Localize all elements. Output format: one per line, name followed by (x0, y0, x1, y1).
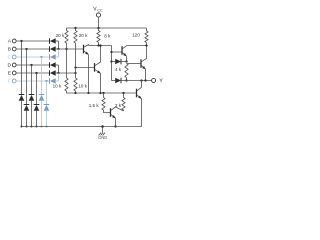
transistor Q6 (squaring network) (110, 108, 112, 117)
wire ground rail (22, 126, 142, 128)
wire Q2 emitter (100, 73, 102, 93)
svg-text:20 k: 20 k (56, 33, 65, 38)
wire Q3 emitter (126, 56, 128, 61)
svg-text:D: D (7, 63, 11, 69)
wire node 2 (gate 2 input node) (59, 72, 76, 74)
wire A drop to clamp diode (21, 41, 23, 95)
wire node 2 tap to Q2 base (76, 67, 95, 69)
wire C drop to clamp diode (41, 57, 43, 95)
wire F drop to clamp diode (46, 81, 48, 105)
input diode D4 (D) (49, 62, 51, 68)
svg-text:C: C (7, 55, 11, 61)
svg-text:B: B (8, 47, 11, 53)
clamp diode input C (39, 94, 45, 96)
diode D7 (upper speed-up) (112, 61, 116, 63)
wire diode bus group 1 (58, 41, 60, 49)
wire to Q3 base column (111, 46, 113, 81)
svg-text:Y: Y (159, 78, 163, 84)
input diode D3 (C) (49, 54, 51, 60)
input diode D5 (E) (49, 70, 51, 76)
transistor Q4 (Darlington output) (127, 63, 141, 65)
input diode D6 (F) (49, 78, 51, 84)
svg-text:A: A (8, 39, 12, 45)
wire input B to diode (16, 48, 49, 50)
output terminal Y (152, 79, 156, 83)
svg-text:1.5 k: 1.5 k (89, 103, 100, 108)
clamp diode input E (34, 104, 40, 106)
svg-text:4 k: 4 k (115, 67, 122, 72)
wire input E to diode (16, 72, 49, 74)
clamp diode input B (24, 104, 30, 106)
resistor 10k (gate 2) (74, 78, 77, 91)
wire input D to diode (16, 64, 49, 66)
wire collector node (Q1,Q2,8k) (89, 45, 112, 47)
resistor 20k (gate 2) (75, 28, 77, 31)
wire diode bus group 2 blue segment (F) (58, 73, 60, 81)
svg-text:8 k: 8 k (104, 33, 111, 38)
wire input C to diode (16, 56, 49, 58)
wire 20k-10k column 2 (75, 68, 77, 79)
input diode D1 (A) (49, 38, 51, 44)
clamp diode input F (44, 104, 50, 106)
wire Q1 emitter (88, 55, 90, 93)
wire Q5 emitter (141, 99, 143, 127)
input diode D2 (B) (49, 46, 51, 52)
wire node 1 (gate 1 input node) (59, 48, 84, 50)
transistor Q5 (output pull-down) (136, 89, 138, 98)
wire B drop to clamp diode (26, 49, 28, 105)
wire VCC top rail (67, 27, 147, 29)
wire D drop to clamp diode (31, 65, 33, 95)
transistor Q1 (phase splitter, gate 1) (83, 45, 85, 54)
svg-text:10 k: 10 k (53, 83, 62, 88)
wire 20k-10k column 1 (66, 49, 68, 78)
resistor 120 (146, 28, 148, 31)
resistor 8k (98, 28, 100, 31)
transistor Q2 (phase splitter, gate 2) (94, 63, 96, 72)
transistor Q3 (Darlington driver) (112, 51, 122, 53)
wire diode bus group 2 (58, 65, 60, 73)
clamp diode input A (19, 94, 25, 96)
wire input F to diode (16, 80, 49, 82)
ground GND (101, 125, 104, 128)
wire emitter node line (76, 92, 137, 94)
svg-text:20 k: 20 k (79, 33, 88, 38)
diode D8 (lower speed-up) (112, 80, 116, 82)
svg-text:10 k: 10 k (78, 83, 87, 88)
wire Q4 emitter to output (145, 69, 147, 80)
svg-text:120: 120 (132, 33, 140, 38)
svg-text:F: F (8, 79, 11, 85)
wire E drop to clamp diode (36, 73, 38, 105)
clamp diode input D (29, 94, 35, 96)
wire output node Y (127, 80, 152, 82)
svg-text:GND: GND (98, 135, 107, 140)
wire diode bus group 1 blue segment (C) (58, 49, 60, 57)
wire Q6 emitter (115, 118, 117, 126)
svg-text:E: E (8, 71, 12, 77)
svg-text:CC: CC (97, 9, 103, 13)
wire input A to diode (16, 40, 49, 42)
